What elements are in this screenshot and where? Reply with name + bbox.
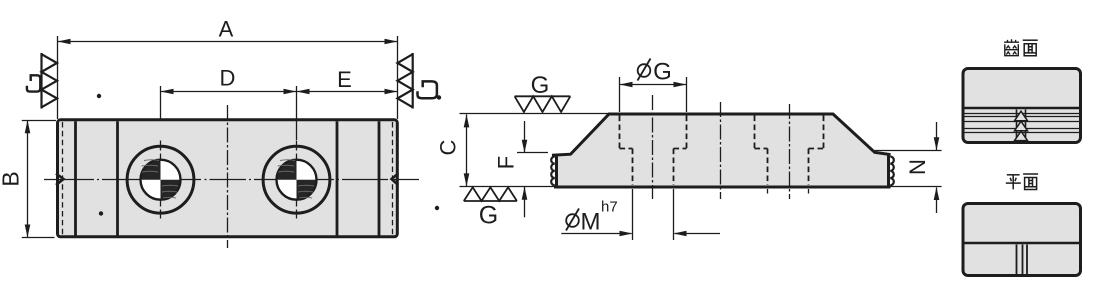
svg-text:G: G — [653, 59, 672, 86]
svg-text:A: A — [219, 17, 234, 42]
svg-text:G: G — [479, 202, 498, 230]
svg-text:F: F — [493, 156, 518, 169]
svg-text:M: M — [581, 209, 601, 236]
svg-text:D: D — [220, 66, 236, 91]
svg-text:C: C — [435, 139, 460, 155]
svg-text:B: B — [0, 171, 24, 186]
svg-text:G: G — [531, 72, 550, 99]
svg-text:h7: h7 — [601, 199, 618, 216]
svg-text:E: E — [337, 67, 352, 92]
svg-text:N: N — [905, 159, 930, 175]
